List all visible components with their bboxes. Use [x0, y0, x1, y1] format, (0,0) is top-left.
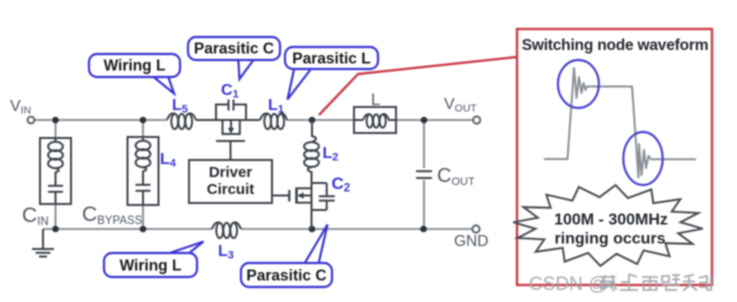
wire VIN drop to CIN box [55, 120, 57, 138]
arrowhead in C1 switch [228, 128, 234, 134]
callout bubble Wiring L (top) [89, 54, 180, 77]
top rail wire VIN to switching node [35, 119, 474, 121]
wire CBYPASS bottom to rail [142, 205, 144, 229]
svg-text:Parasitic C: Parasitic C [246, 268, 326, 285]
wire CBYPASS top drop [142, 120, 144, 137]
callout bubble Parasitic C (top) tail [238, 55, 257, 79]
starburst callout [513, 185, 702, 266]
callout bubble Wiring L (bottom) tail [155, 242, 204, 259]
callout bubble Parasitic L [285, 47, 378, 69]
wire CIN box bottom to rail [55, 204, 57, 229]
callout bubble Parasitic C (bottom) [241, 263, 332, 287]
watermark CJK-style glyphs [600, 274, 711, 291]
svg-text:COUT: COUT [437, 165, 475, 188]
node CIN bottom junction [52, 226, 59, 233]
waveform trace [544, 68, 696, 178]
capacitor CIN (box with series L and C) [40, 138, 71, 204]
callout bubble Parasitic L tail [288, 65, 315, 100]
red detail box [517, 29, 712, 285]
svg-text:100M - 300MHz: 100M - 300MHz [554, 212, 668, 229]
svg-text:CIN: CIN [22, 204, 49, 228]
bottom rail wire (GND rail) [43, 228, 472, 230]
svg-text:C1: C1 [221, 82, 239, 101]
svg-text:VIN: VIN [10, 98, 31, 117]
terminal VIN [28, 117, 35, 124]
svg-text:C2: C2 [332, 174, 351, 195]
node VIN junction [52, 117, 59, 124]
svg-text:Parasitic C: Parasitic C [194, 41, 274, 58]
svg-text:L: L [371, 91, 380, 109]
inductor L5 (wiring inductance) [167, 113, 196, 129]
svg-text:Wiring L: Wiring L [104, 58, 166, 75]
svg-text:ringing occurs: ringing occurs [554, 231, 665, 248]
node COUT top junction [421, 117, 428, 124]
svg-text:Circuit: Circuit [207, 181, 255, 198]
parasitic block C1 (high side switch with parallel C) [196, 100, 260, 161]
svg-text:VOUT: VOUT [444, 96, 477, 115]
svg-text:Parasitic L: Parasitic L [292, 51, 370, 68]
capacitor COUT [416, 171, 432, 178]
transistor Q1 (low side MOSFET) [272, 183, 335, 229]
svg-text:GND: GND [454, 233, 488, 250]
ellipse highlight bottom ringing [623, 132, 662, 185]
svg-text:L5: L5 [172, 97, 188, 116]
ellipse highlight top ringing [558, 60, 599, 108]
svg-text:Wiring L: Wiring L [120, 258, 182, 275]
svg-text:L2: L2 [323, 145, 339, 164]
inductor L output (boxed) [354, 107, 396, 133]
driver circuit block U1 [189, 160, 272, 203]
node MOSFET source junction [309, 226, 316, 233]
svg-text:L1: L1 [268, 97, 284, 116]
callout bubble Parasitic C (top) [188, 37, 280, 60]
svg-text:L3: L3 [218, 243, 234, 262]
node switching node [309, 117, 316, 124]
arrowhead MOSFET body [297, 192, 303, 198]
callout bubble Wiring L (top) tail [145, 70, 174, 94]
red connector to detail box [319, 57, 517, 115]
callout bubble Parasitic C (bottom) tail [303, 225, 328, 267]
svg-text:Switching node waveform: Switching node waveform [522, 37, 709, 54]
callout bubble Wiring L (bottom) [104, 253, 197, 277]
inductor L1 (parasitic) [260, 113, 287, 129]
node CBYPASS top junction [140, 117, 147, 124]
wire COUT branch [423, 120, 425, 229]
capacitor CBYPASS (box with series L and C) [128, 137, 159, 205]
svg-text:CSDN @: CSDN @ [529, 274, 607, 295]
svg-text:L4: L4 [160, 151, 177, 170]
svg-text:CBYPASS: CBYPASS [82, 203, 143, 227]
terminal GND [472, 225, 479, 232]
watermark CSDN [529, 274, 607, 295]
node CBYPASS bottom junction [140, 226, 147, 233]
node COUT bottom junction [420, 226, 427, 233]
inductor L3 (wiring, bottom rail) [212, 222, 241, 238]
ground [32, 229, 54, 257]
terminal VOUT [473, 116, 480, 123]
inductor L2 (parasitic, vertical) [304, 120, 319, 183]
svg-text:Driver: Driver [209, 164, 253, 181]
